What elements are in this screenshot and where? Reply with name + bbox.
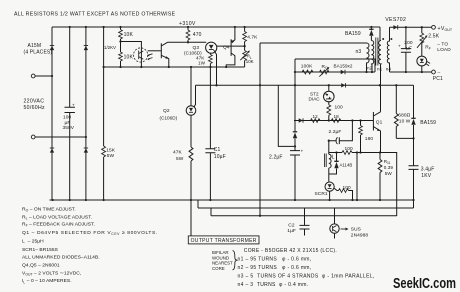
resistor 100K bbox=[302, 70, 313, 74]
svg-text:O: O bbox=[325, 66, 328, 70]
diode rectifier output bbox=[393, 25, 397, 29]
wire: opto to Q5 base bbox=[148, 50, 162, 52]
resistor 680ohm 10W snubber bbox=[395, 85, 397, 138]
potentiometer Rf 2.5K bbox=[421, 27, 423, 56]
svg-text:LOAD: LOAD bbox=[437, 47, 451, 53]
wire: output bottom rail bbox=[390, 71, 432, 73]
inductor L 25uH bbox=[328, 141, 330, 155]
node 10K junction bbox=[119, 40, 121, 42]
transistor Q5 bbox=[161, 42, 169, 67]
svg-text:WOUND: WOUND bbox=[212, 255, 229, 260]
svg-text:5W: 5W bbox=[107, 153, 115, 159]
wire: bridge leg 3 bbox=[85, 27, 87, 200]
resistor 15K 5W bbox=[102, 146, 106, 157]
light arrows bbox=[148, 54, 153, 59]
svg-text:BA159x2: BA159x2 bbox=[334, 63, 353, 68]
svg-text:BIFILAR: BIFILAR bbox=[212, 250, 229, 255]
svg-text:5W: 5W bbox=[385, 171, 393, 176]
svg-text:A114B: A114B bbox=[340, 163, 353, 168]
svg-text:2N4988: 2N4988 bbox=[351, 232, 369, 238]
svg-text:C1: C1 bbox=[214, 147, 221, 153]
svg-text:100K: 100K bbox=[301, 64, 313, 70]
junction dots common rail bbox=[102, 66, 104, 68]
capacitor 2.2uF left bbox=[290, 151, 300, 155]
svg-text:n1 – 95 TURNS φ - 0.6 mm,: n1 – 95 TURNS φ - 0.6 mm, bbox=[238, 256, 312, 262]
svg-text:n3: n3 bbox=[356, 49, 362, 55]
wire: +310V top rail bbox=[52, 26, 380, 28]
svg-text:NEAREST: NEAREST bbox=[212, 261, 233, 266]
led PC1 bbox=[417, 56, 427, 66]
svg-text:1W: 1W bbox=[198, 60, 206, 65]
svg-text:n3 – 5 TURNS OF 4 STRANDS φ: n3 – 5 TURNS OF 4 STRANDS φ - 1mm PARALL… bbox=[238, 273, 375, 279]
svg-text:PC1: PC1 bbox=[433, 76, 443, 82]
wire: bridge leg 2 bbox=[69, 27, 71, 200]
wire: row B gate bus bbox=[196, 84, 414, 86]
svg-text:1/2KV: 1/2KV bbox=[104, 45, 116, 50]
svg-text:2.5K: 2.5K bbox=[428, 34, 439, 40]
thyristor Q3 (C106D) bbox=[206, 42, 217, 53]
transistor Q4 bbox=[226, 27, 235, 67]
winding n1 bbox=[379, 41, 381, 65]
wire: Q5 collector rail bbox=[168, 41, 207, 43]
diode on base bus bbox=[299, 118, 303, 122]
resistor 100 scr gate bbox=[334, 188, 353, 200]
wire: AC bottom lead bbox=[35, 136, 86, 138]
svg-text:SCR1: SCR1 bbox=[315, 191, 328, 197]
svg-text:CORE: CORE bbox=[212, 266, 225, 271]
node n2 pin joins row C bbox=[371, 71, 373, 73]
svg-text:(C106D): (C106D) bbox=[160, 116, 178, 121]
resistor 180 bbox=[360, 121, 362, 153]
svg-text:A15M: A15M bbox=[28, 43, 42, 49]
svg-text:100: 100 bbox=[343, 185, 352, 191]
opto phototransistor PC1 side (dashed circle) bbox=[134, 48, 148, 62]
svg-text:18: 18 bbox=[334, 114, 340, 119]
svg-text:µF: µF bbox=[406, 45, 412, 51]
box output transformer label bbox=[188, 236, 259, 244]
diode A15M leg1 bottom bbox=[50, 148, 54, 153]
resistor 10K lower bbox=[119, 52, 123, 61]
wire: 47K1W down to C1 bbox=[209, 67, 211, 200]
wire: lower rail 3 bbox=[211, 208, 397, 216]
svg-text:L – 25µH: L – 25µH bbox=[22, 239, 44, 245]
svg-text:+: + bbox=[301, 149, 304, 154]
svg-text:100: 100 bbox=[63, 115, 72, 121]
svg-text:50/60Hz: 50/60Hz bbox=[24, 105, 46, 111]
svg-text:RO – ON TIME ADJUST.: RO – ON TIME ADJUST. bbox=[22, 207, 76, 213]
wire: secondary top rail bbox=[390, 26, 432, 28]
svg-text:3.4µF: 3.4µF bbox=[421, 167, 435, 173]
wire: lower rail 2 bbox=[198, 200, 414, 208]
svg-text:2.2µF: 2.2µF bbox=[269, 155, 283, 161]
svg-text:+: + bbox=[398, 45, 401, 50]
wire: row B stub to cap branch bbox=[278, 85, 295, 146]
terminal +Vout bbox=[432, 25, 436, 29]
diode A15M leg3 bottom bbox=[84, 148, 88, 153]
svg-text:DIAC: DIAC bbox=[309, 97, 321, 102]
diode BA159 row B bbox=[341, 83, 345, 87]
resistor 100 below diac bbox=[328, 102, 330, 121]
resistor 18 bbox=[331, 119, 341, 123]
terminal AC input bottom bbox=[31, 135, 35, 139]
diode A114B parallel bbox=[329, 153, 337, 175]
svg-text:SUS: SUS bbox=[351, 227, 361, 233]
capacitor 100uF 350V bbox=[65, 107, 75, 112]
diode A15M leg1 top bbox=[50, 46, 54, 51]
svg-text:L: L bbox=[332, 155, 335, 161]
transistor Q1 D64VP5 bbox=[373, 112, 380, 153]
svg-text:IL – 0 – 10 AMPERES.: IL – 0 – 10 AMPERES. bbox=[22, 278, 72, 284]
svg-text:(4 PLACES): (4 PLACES) bbox=[24, 50, 53, 56]
wire: junction to optocoupler bbox=[121, 42, 142, 68]
svg-text:Q4,Q5 – 2N6001: Q4,Q5 – 2N6001 bbox=[22, 263, 60, 269]
node n3 pin joins row C bbox=[365, 71, 367, 73]
resistor 12 bbox=[311, 119, 321, 123]
svg-text:350V: 350V bbox=[63, 125, 75, 131]
svg-text:100: 100 bbox=[335, 105, 344, 111]
wire: bridge leg 1 bbox=[51, 27, 53, 200]
brace bbox=[233, 251, 237, 270]
wire: plain vertical to main rail bbox=[356, 153, 358, 201]
wire: Q1 collector to n1 bbox=[380, 65, 382, 112]
capacitor C2 1uF bbox=[304, 208, 306, 236]
resistor 10K upper bbox=[119, 30, 123, 40]
polarity dots bbox=[382, 38, 384, 40]
svg-text:n4: n4 bbox=[386, 67, 392, 72]
wire: Q4 base bbox=[217, 45, 245, 47]
wire: AC top lead bbox=[35, 75, 52, 77]
junction dots bridge top bbox=[69, 26, 71, 28]
svg-text:180: 180 bbox=[365, 136, 374, 142]
wire: Q1 emitter rail bbox=[329, 153, 397, 217]
svg-text:10K: 10K bbox=[124, 55, 134, 61]
svg-text:200: 200 bbox=[404, 40, 413, 46]
wire: left long vertical bbox=[259, 43, 261, 216]
svg-text:12: 12 bbox=[313, 114, 319, 119]
svg-text:SCR1– BR155S: SCR1– BR155S bbox=[22, 247, 59, 253]
diode A15M leg3 top bbox=[84, 46, 88, 51]
svg-text:10µF: 10µF bbox=[214, 154, 226, 160]
svg-text:n1: n1 bbox=[377, 67, 383, 72]
transformer core bbox=[376, 38, 378, 66]
potentiometer RL 10K bbox=[244, 46, 246, 67]
diode BA159 clamp bbox=[370, 27, 372, 41]
diode BA159 row C bbox=[341, 70, 345, 74]
svg-text:n2 – 95 TURNS φ - 0.6 mm,: n2 – 95 TURNS φ - 0.6 mm, bbox=[238, 265, 312, 271]
svg-text:47K: 47K bbox=[173, 150, 183, 156]
svg-text:SeekIC.com: SeekIC.com bbox=[393, 276, 456, 292]
svg-text:C2: C2 bbox=[288, 223, 295, 229]
svg-text:CORE - B5OGER 42 X 21X15 (LCC): CORE - B5OGER 42 X 21X15 (LCC). bbox=[244, 248, 337, 254]
svg-text:680Ω: 680Ω bbox=[398, 113, 410, 119]
wire: row C feedback row bbox=[295, 71, 375, 73]
svg-text:BA159: BA159 bbox=[345, 31, 361, 37]
svg-text:1KV: 1KV bbox=[421, 173, 431, 179]
svg-text:ALL UNMARKED DIODES–A114B.: ALL UNMARKED DIODES–A114B. bbox=[22, 255, 100, 261]
svg-text:15K: 15K bbox=[106, 148, 116, 154]
wire: 10K divider chain bbox=[120, 27, 122, 67]
wire: Q3 gate to row B bbox=[215, 52, 217, 86]
svg-text:10K: 10K bbox=[124, 32, 134, 38]
svg-text:+: + bbox=[72, 104, 75, 109]
wire: bridge leg 4 bbox=[103, 27, 105, 200]
svg-text:F: F bbox=[429, 47, 431, 51]
svg-text:VES702: VES702 bbox=[385, 17, 406, 23]
resistor 470 bbox=[187, 27, 189, 42]
svg-text:220VAC: 220VAC bbox=[24, 99, 45, 105]
terminal AC input top bbox=[31, 74, 35, 78]
svg-text:4.7K: 4.7K bbox=[247, 35, 258, 41]
svg-text:OUT: OUT bbox=[445, 28, 453, 32]
svg-text:100: 100 bbox=[345, 146, 354, 152]
winding n2 bbox=[371, 41, 373, 73]
wire: Q1 base bus bbox=[294, 120, 373, 122]
svg-text:2.2µF: 2.2µF bbox=[329, 129, 342, 135]
thyristor Q2 (C106D) bbox=[190, 67, 192, 106]
diode BA159 snubber bbox=[413, 85, 415, 138]
winding n4 bbox=[387, 27, 389, 72]
svg-text:0.39: 0.39 bbox=[384, 165, 394, 170]
resistor 100 on emitter rail bbox=[342, 151, 352, 155]
wire: Q2 gate to row B bbox=[194, 85, 196, 107]
svg-text:Q1: Q1 bbox=[376, 120, 383, 126]
junction dots bridge bottom bbox=[51, 199, 53, 201]
potentiometer Ro bbox=[320, 70, 330, 74]
svg-text:RL – LOAD VOLTAGE ADJUST.: RL – LOAD VOLTAGE ADJUST. bbox=[22, 214, 92, 220]
wire: rail corner into n1 bbox=[380, 27, 381, 41]
wire: main bottom rail bbox=[50, 199, 414, 201]
svg-text:– TO: – TO bbox=[437, 42, 448, 48]
capacitor C1 10uF bbox=[205, 149, 215, 153]
wire: feedback box top bbox=[295, 59, 375, 72]
svg-text:470: 470 bbox=[193, 32, 202, 38]
svg-text:Q1 – D64VP5 SELECTED FOR VCEV: Q1 – D64VP5 SELECTED FOR VCEV ≥ 800VOLTS… bbox=[22, 230, 158, 236]
diac ST2 bbox=[328, 85, 330, 91]
svg-text:RF – FEEDBACK GAIN ADJUST.: RF – FEEDBACK GAIN ADJUST. bbox=[22, 221, 95, 227]
svg-text:10K: 10K bbox=[246, 59, 254, 64]
winding n3 bbox=[367, 43, 370, 65]
svg-text:ALL RESISTORS 1/2 WATT EXCEPT: ALL RESISTORS 1/2 WATT EXCEPT AS NOTED O… bbox=[14, 12, 176, 18]
svg-text:OUTPUT TRANSFORMER: OUTPUT TRANSFORMER bbox=[191, 238, 257, 244]
wire: common mid-left rail bbox=[104, 66, 245, 68]
wire: leader to output transformer box bbox=[190, 200, 192, 236]
svg-text:n2: n2 bbox=[367, 66, 373, 71]
wire: snubber bottom bbox=[396, 137, 413, 139]
resistor 47K 1W bbox=[209, 53, 211, 67]
svg-text:1µF: 1µF bbox=[287, 228, 296, 234]
capacitor 3.4uF 1KV bbox=[413, 138, 415, 208]
svg-text:µF: µF bbox=[65, 120, 71, 126]
svg-text:10 W: 10 W bbox=[399, 119, 411, 125]
svg-text:5W: 5W bbox=[176, 156, 184, 162]
terminal output minus PC1 bbox=[432, 70, 436, 74]
scr SCR1 BR155S bbox=[325, 182, 334, 191]
svg-text:n4 – 3 TURNS φ - 0.4 mm.: n4 – 3 TURNS φ - 0.4 mm. bbox=[238, 282, 309, 288]
capacitor 200uF bbox=[405, 27, 407, 72]
resistor R11 0.39 5W bbox=[379, 153, 381, 201]
wire: feedback box left vertical bbox=[294, 59, 296, 200]
capacitor 2.2uF right (horizontal) bbox=[329, 121, 353, 141]
resistor 47K 5W bbox=[190, 115, 192, 200]
diode up on left vertical bbox=[293, 132, 297, 138]
svg-text:BA159: BA159 bbox=[420, 120, 436, 126]
wire: n3 top loop wire bbox=[260, 42, 367, 44]
sus 2N4988 bbox=[334, 208, 336, 239]
resistor 4.7K bbox=[244, 27, 246, 46]
svg-text:Q2: Q2 bbox=[163, 108, 170, 114]
